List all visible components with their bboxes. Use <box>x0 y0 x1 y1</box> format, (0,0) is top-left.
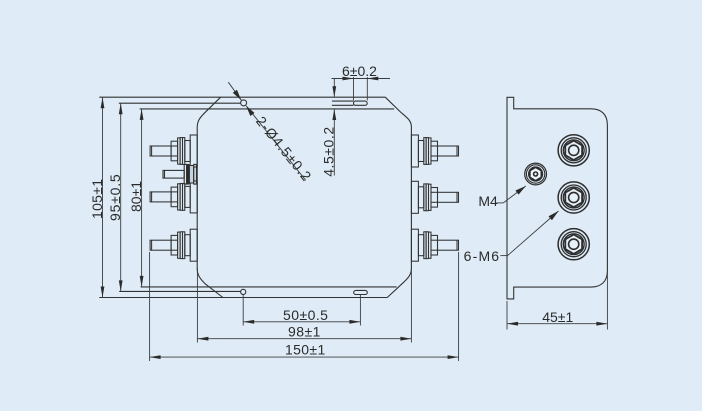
95 extension line bottom (to hole) <box>119 290 240 292</box>
arrow dim6 left <box>343 77 354 81</box>
right bolt 3 <box>411 229 458 261</box>
left bolt 3 <box>150 229 197 261</box>
right bolt 2 <box>411 181 458 213</box>
left bolt 1 <box>150 135 197 167</box>
ground stud (left, small) <box>163 164 196 184</box>
dim 50 <box>242 295 244 326</box>
body right profile with flange chamfers <box>385 97 411 297</box>
M6 terminal bottom <box>558 229 589 260</box>
arrow dim6 right <box>367 77 378 81</box>
arrow dim80 bottom <box>140 276 144 287</box>
arrow dim45 right <box>596 322 607 326</box>
mounting hole top <box>241 100 247 106</box>
svg-text:95±0.5: 95±0.5 <box>107 173 123 221</box>
top slot edge lines <box>332 100 354 102</box>
body left profile with flange chamfers <box>197 97 223 297</box>
arrow dim105 top <box>101 97 105 108</box>
arrow dim150 right <box>448 355 459 359</box>
M4 terminal <box>525 163 547 185</box>
dim 105 line <box>102 97 104 297</box>
svg-text:4.5±0.2: 4.5±0.2 <box>321 126 337 176</box>
svg-text:50±0.5: 50±0.5 <box>283 307 328 323</box>
dim 98 <box>196 268 198 343</box>
arrow dim50 left <box>243 320 254 324</box>
arrowheads <box>101 77 608 359</box>
svg-text:150±1: 150±1 <box>285 341 326 357</box>
M6 terminal top <box>558 135 589 166</box>
svg-text:M4: M4 <box>478 193 498 209</box>
leader 2-d4.5 <box>228 82 241 100</box>
svg-text:6±0.2: 6±0.2 <box>342 63 377 79</box>
svg-text:105±1: 105±1 <box>89 179 105 219</box>
flange top edge + 105 extension line <box>99 96 385 98</box>
dim 4.5 vertical <box>333 79 335 97</box>
M6 leader <box>500 255 507 257</box>
arrow dim4.5 upper <box>332 86 336 97</box>
body bottom edge + 80 extension line <box>141 286 397 288</box>
arrow hole leader lower <box>244 104 255 116</box>
arrow dim95 bottom <box>119 280 123 291</box>
dim 80 line <box>141 109 143 287</box>
bottom slot <box>354 290 368 294</box>
95 extension line top (to hole) <box>119 102 241 104</box>
arrow dim98 left <box>197 337 208 341</box>
dim 45 (side view) <box>506 301 508 330</box>
body top edge + 80 extension line <box>140 108 395 110</box>
flange bottom edge + 105 extension line <box>99 297 387 299</box>
dim 6 (top slot) <box>353 77 355 101</box>
arrow hole leader upper <box>233 90 244 102</box>
dim 95 line <box>120 103 122 291</box>
arrow dim45 left <box>507 322 518 326</box>
side view case outline with mounting flange tabs <box>507 97 607 299</box>
svg-text:98±1: 98±1 <box>288 324 321 340</box>
arrow dim50 right <box>349 320 360 324</box>
arrow dim4.5 lower <box>332 109 336 120</box>
arrow dim150 left <box>150 355 161 359</box>
arrow dim98 right <box>400 337 411 341</box>
svg-text:80±1: 80±1 <box>128 181 144 212</box>
right bolt 1 <box>411 135 458 167</box>
svg-text:45±1: 45±1 <box>542 309 573 325</box>
M6 terminal middle <box>558 182 589 213</box>
top slot <box>354 101 368 105</box>
arrow dim105 bottom <box>101 287 105 298</box>
arrow M6 leader <box>549 209 561 220</box>
arrow dim95 top <box>119 103 123 114</box>
arrow dim80 top <box>140 109 144 120</box>
arrow M4 leader <box>515 184 527 195</box>
mounting hole bottom <box>241 289 246 294</box>
M4 leader <box>496 202 503 204</box>
dim 150 <box>149 252 151 361</box>
left bolt 2 <box>150 181 197 213</box>
svg-text:6-M6: 6-M6 <box>464 248 501 264</box>
